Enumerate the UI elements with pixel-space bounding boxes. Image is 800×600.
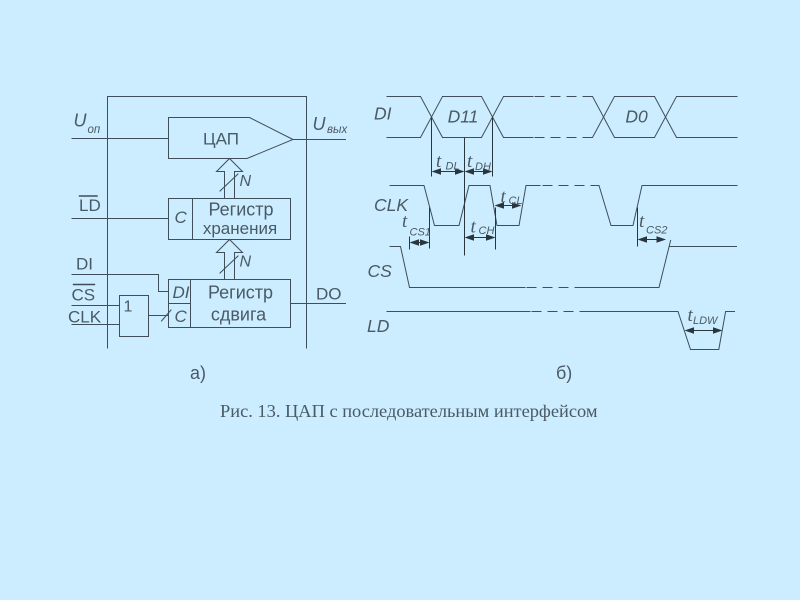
dim arrow tDH <box>468 171 490 173</box>
svg-text:CS1: CS1 <box>410 227 431 239</box>
bus slash upper <box>220 174 238 191</box>
dim vertical mid (clk rise 1) <box>464 138 466 256</box>
DI crossover X3 <box>593 97 615 138</box>
svg-text:t: t <box>402 211 408 232</box>
overline LD <box>80 195 98 197</box>
svg-text:t: t <box>471 217 477 238</box>
dim arrow tCL <box>497 205 520 207</box>
dimension lines and arrows (dark) <box>410 118 721 331</box>
arrowheads tCS1 <box>410 239 420 246</box>
svg-text:Регистр: Регистр <box>208 283 273 303</box>
timing row labels <box>367 104 648 337</box>
t labels <box>402 151 719 327</box>
wire DI input with jog <box>72 275 169 292</box>
svg-text:а): а) <box>190 363 206 383</box>
svg-text:оп: оп <box>88 124 101 136</box>
bus arrow N to storage register <box>217 240 243 280</box>
arrowheads tLDW <box>685 327 695 334</box>
wire CLK input <box>72 324 120 326</box>
svg-text:CS: CS <box>368 261 393 281</box>
DI bus top line segments <box>387 96 737 98</box>
CS waveform left <box>390 247 525 288</box>
dim arrow tLDW <box>688 330 720 332</box>
DI dashed continuation <box>535 97 593 138</box>
outer block frame (open bottom) <box>108 97 307 349</box>
svg-text:DI: DI <box>173 283 190 302</box>
svg-text:N: N <box>240 254 252 271</box>
dim vertical cs fall <box>409 237 411 250</box>
dim arrow tCS2 <box>641 239 666 241</box>
bus arrow N to DAC <box>217 159 243 199</box>
dim vertical clk fall 2 <box>495 208 497 250</box>
block storage register (Регистр хранения) <box>169 199 291 240</box>
svg-text:Регистр: Регистр <box>208 200 273 220</box>
dim vertical clk rise last <box>637 208 639 247</box>
label U_vyh <box>313 114 349 136</box>
svg-text:t: t <box>501 187 507 208</box>
svg-text:Рис. 13. ЦАП с последовательны: Рис. 13. ЦАП с последовательным интерфей… <box>220 401 598 421</box>
wire U_vyh output <box>293 139 346 141</box>
svg-text:LD: LD <box>367 316 390 336</box>
LD dashed high <box>532 311 590 313</box>
CLK waveform left <box>390 186 540 226</box>
gate 1 box <box>120 296 149 337</box>
storage register pin divider <box>192 199 194 240</box>
shift register pin divider horizontal <box>169 303 191 305</box>
svg-text:CS2: CS2 <box>646 225 667 237</box>
CLK dashed high <box>543 185 592 187</box>
svg-text:t: t <box>467 151 473 172</box>
svg-text:DH: DH <box>475 161 491 173</box>
svg-text:LDW: LDW <box>693 315 719 327</box>
svg-text:LD: LD <box>79 196 101 215</box>
dim arrow tDL <box>434 171 462 173</box>
overline CS <box>74 284 95 286</box>
svg-text:ЦАП: ЦАП <box>203 130 239 149</box>
wire CS input <box>72 305 120 307</box>
svg-text:C: C <box>175 307 188 326</box>
wire gate output to C <box>149 315 169 317</box>
dim vertical X2 <box>492 118 494 177</box>
svg-text:t: t <box>639 211 645 232</box>
svg-text:N: N <box>240 173 252 190</box>
dim arrow tCS1 <box>412 242 427 244</box>
arrowheads tDL <box>432 168 442 175</box>
svg-text:CS: CS <box>72 286 96 305</box>
svg-text:U: U <box>313 114 327 134</box>
dim vertical X1 <box>431 118 433 177</box>
arrowheads tCH <box>465 234 475 241</box>
CS waveform right with extended rise <box>585 241 671 288</box>
wire U_op input <box>72 138 169 140</box>
DI bus bottom line segments <box>387 137 737 139</box>
svg-text:DL: DL <box>446 161 460 173</box>
CLK waveform right <box>592 186 737 226</box>
wire DO output <box>291 303 346 305</box>
svg-text:DO: DO <box>316 285 342 304</box>
svg-text:CLK: CLK <box>68 308 102 327</box>
DI crossover X2 <box>482 97 504 138</box>
dim arrow tCH <box>468 237 493 239</box>
arrowheads tCS2 <box>638 236 648 243</box>
svg-text:DI: DI <box>374 104 392 124</box>
svg-text:t: t <box>436 151 442 172</box>
svg-text:D0: D0 <box>625 107 648 127</box>
DI crossover X1 <box>421 97 443 138</box>
clock edge slash at C pin <box>162 310 172 321</box>
svg-text:CH: CH <box>479 225 495 237</box>
wire LD input <box>72 218 169 220</box>
svg-text:DI: DI <box>76 254 93 273</box>
arrowheads tDH <box>465 168 475 175</box>
svg-text:1: 1 <box>124 299 133 316</box>
label U_op <box>74 111 101 137</box>
bus slash lower <box>220 256 238 273</box>
LD high left <box>387 311 530 313</box>
svg-text:D11: D11 <box>448 107 479 127</box>
svg-text:хранения: хранения <box>203 219 277 238</box>
block shift register (Регистр сдвига) <box>169 280 291 328</box>
svg-text:сдвига: сдвига <box>211 305 267 325</box>
svg-text:вых: вых <box>327 124 348 136</box>
DI solid stub after X2 <box>504 97 534 138</box>
CS dashed low <box>527 287 585 289</box>
svg-text:U: U <box>74 111 88 131</box>
svg-text:C: C <box>175 208 188 227</box>
dim vertical clk fall 1 <box>429 208 431 249</box>
LD pulse <box>590 312 735 350</box>
svg-text:CL: CL <box>509 195 523 207</box>
block DAC (ЦАП) pentagon <box>169 118 294 159</box>
CS high right <box>670 246 737 248</box>
arrowheads tCL <box>495 202 505 209</box>
svg-text:б): б) <box>556 363 572 383</box>
DI crossover X4 <box>655 97 677 138</box>
shift register pin divider vertical <box>190 280 192 328</box>
